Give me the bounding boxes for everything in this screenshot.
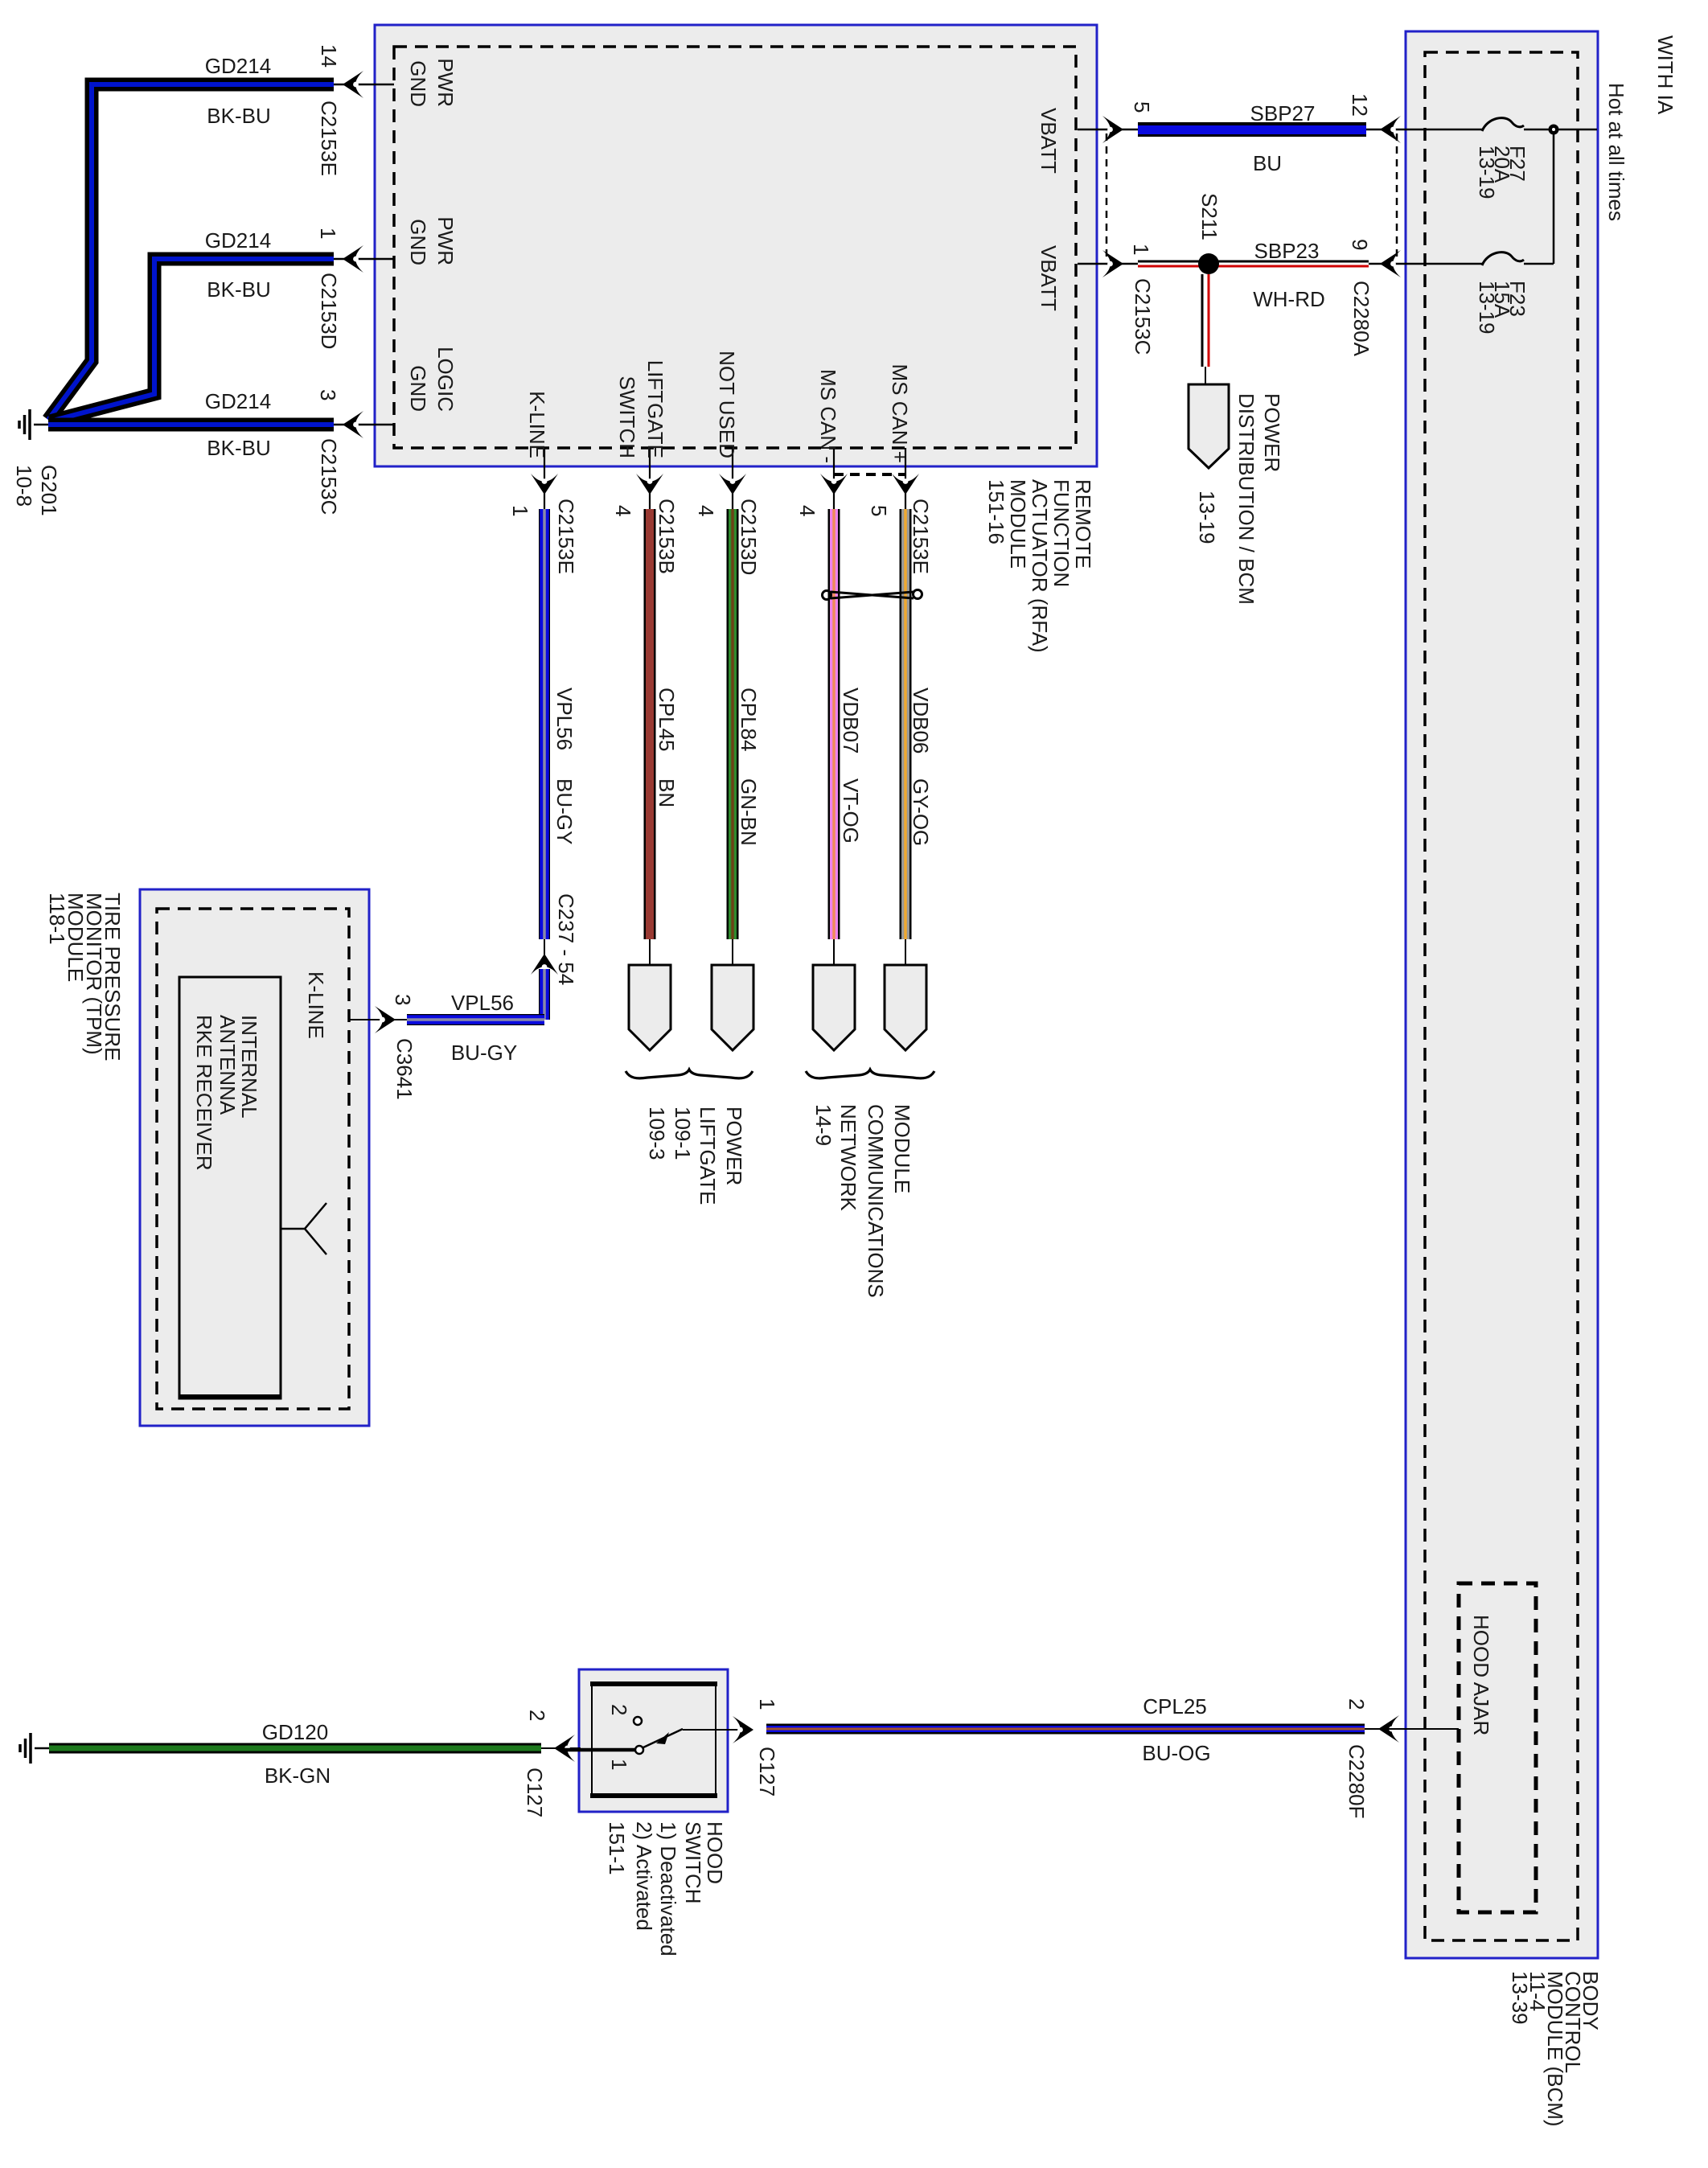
svg-text:GY-OG: GY-OG <box>909 778 933 846</box>
svg-text:CPL84: CPL84 <box>737 688 761 752</box>
svg-text:NETWORK: NETWORK <box>836 1104 860 1212</box>
svg-text:13-19: 13-19 <box>1195 491 1219 544</box>
svg-text:INTERNAL: INTERNAL <box>237 1015 261 1119</box>
svg-text:13-19: 13-19 <box>1475 281 1499 335</box>
svg-text:5: 5 <box>867 505 891 516</box>
svg-text:GND: GND <box>406 60 430 107</box>
svg-text:C2153B: C2153B <box>655 499 679 574</box>
svg-text:SBP23: SBP23 <box>1254 239 1320 263</box>
svg-text:BU-GY: BU-GY <box>451 1041 517 1065</box>
svg-text:BK-BU: BK-BU <box>207 104 270 128</box>
svg-text:C2153D: C2153D <box>317 273 341 349</box>
svg-text:1: 1 <box>1129 244 1153 255</box>
svg-text:RKE RECEIVER: RKE RECEIVER <box>192 1015 216 1171</box>
svg-text:MODULE: MODULE <box>890 1104 914 1193</box>
svg-text:SBP27: SBP27 <box>1250 101 1316 125</box>
svg-text:151-1: 151-1 <box>605 1821 629 1875</box>
svg-text:1: 1 <box>755 1698 779 1710</box>
svg-text:K-LINE: K-LINE <box>304 971 328 1039</box>
svg-text:2: 2 <box>525 1710 549 1721</box>
svg-text:HOOD AJAR: HOOD AJAR <box>1469 1615 1493 1735</box>
svg-text:13-19: 13-19 <box>1475 146 1499 199</box>
svg-text:14: 14 <box>317 44 341 68</box>
svg-text:G201: G201 <box>37 465 61 516</box>
svg-text:K-LINE: K-LINE <box>525 391 549 458</box>
svg-text:POWER: POWER <box>1260 393 1284 472</box>
svg-text:5: 5 <box>1130 101 1154 113</box>
svg-text:1: 1 <box>316 228 340 239</box>
svg-text:151-16: 151-16 <box>984 479 1008 544</box>
svg-text:BU-OG: BU-OG <box>1142 1741 1210 1765</box>
svg-text:CPL45: CPL45 <box>655 688 679 752</box>
svg-text:BN: BN <box>655 778 679 807</box>
svg-text:VBATT: VBATT <box>1037 108 1061 174</box>
svg-text:POWER: POWER <box>722 1107 746 1185</box>
svg-text:1: 1 <box>508 505 532 516</box>
svg-text:S211: S211 <box>1197 193 1221 240</box>
svg-text:1) Deactivated: 1) Deactivated <box>656 1821 680 1957</box>
svg-text:WITH IA: WITH IA <box>1653 35 1677 115</box>
svg-text:COMMUNICATIONS: COMMUNICATIONS <box>864 1104 888 1298</box>
svg-text:VDB07: VDB07 <box>839 688 863 753</box>
svg-text:SWITCH: SWITCH <box>615 376 639 458</box>
svg-text:C2153C: C2153C <box>317 438 341 515</box>
svg-text:2: 2 <box>607 1704 631 1715</box>
svg-text:MS CAN +: MS CAN + <box>888 363 912 463</box>
svg-text:BK-BU: BK-BU <box>207 277 270 302</box>
svg-text:BK-BU: BK-BU <box>207 436 270 460</box>
svg-text:ANTENNA: ANTENNA <box>216 1015 240 1115</box>
svg-text:FUNCTION: FUNCTION <box>1049 479 1074 587</box>
svg-text:12: 12 <box>1348 93 1372 117</box>
svg-text:3: 3 <box>316 389 340 400</box>
svg-text:BK-GN: BK-GN <box>265 1764 331 1788</box>
svg-text:10-8: 10-8 <box>12 465 36 507</box>
svg-text:GD120: GD120 <box>262 1720 328 1744</box>
svg-text:4: 4 <box>795 505 819 516</box>
svg-text:2) Activated: 2) Activated <box>632 1821 656 1931</box>
svg-text:BU: BU <box>1253 151 1282 175</box>
svg-text:C237 - 54: C237 - 54 <box>554 893 578 985</box>
svg-text:14-9: 14-9 <box>811 1104 836 1146</box>
svg-text:MS CAN -: MS CAN - <box>816 369 840 463</box>
svg-text:C2153C: C2153C <box>1131 278 1155 355</box>
svg-text:C2280F: C2280F <box>1345 1744 1369 1819</box>
svg-text:C2153D: C2153D <box>737 499 761 575</box>
svg-text:4: 4 <box>694 505 718 516</box>
svg-text:NOT USED: NOT USED <box>715 351 739 458</box>
svg-text:C2153E: C2153E <box>909 499 933 574</box>
svg-text:SWITCH: SWITCH <box>681 1821 705 1904</box>
svg-text:VBATT: VBATT <box>1037 245 1061 311</box>
svg-text:LOGIC: LOGIC <box>433 347 458 412</box>
svg-text:2: 2 <box>1345 1698 1369 1710</box>
svg-text:4: 4 <box>611 505 635 516</box>
svg-text:13-39: 13-39 <box>1508 1971 1532 2025</box>
svg-text:GD214: GD214 <box>205 228 271 253</box>
svg-text:C127: C127 <box>523 1768 547 1817</box>
svg-text:GND: GND <box>406 219 430 265</box>
svg-text:WH-RD: WH-RD <box>1253 287 1325 311</box>
svg-text:9: 9 <box>1348 239 1372 250</box>
svg-text:GD214: GD214 <box>205 389 271 413</box>
svg-text:MODULE: MODULE <box>1006 479 1030 569</box>
svg-text:C2280A: C2280A <box>1349 281 1373 357</box>
svg-text:GD214: GD214 <box>205 54 271 78</box>
svg-text:C127: C127 <box>755 1747 779 1796</box>
svg-text:GN-BN: GN-BN <box>737 778 761 846</box>
svg-text:1: 1 <box>607 1759 631 1770</box>
svg-text:Hot at all times: Hot at all times <box>1604 83 1628 221</box>
svg-text:DISTRIBUTION / BCM: DISTRIBUTION / BCM <box>1234 393 1258 605</box>
svg-text:BU-GY: BU-GY <box>552 778 577 844</box>
svg-text:C3641: C3641 <box>392 1038 417 1100</box>
svg-text:LIFTGATE: LIFTGATE <box>643 360 667 458</box>
svg-text:ACTUATOR (RFA): ACTUATOR (RFA) <box>1028 479 1052 653</box>
svg-text:GND: GND <box>406 365 430 412</box>
svg-text:C2153E: C2153E <box>317 101 341 176</box>
svg-text:CPL25: CPL25 <box>1143 1694 1207 1718</box>
svg-text:HOOD: HOOD <box>703 1821 727 1884</box>
svg-text:109-3: 109-3 <box>645 1107 669 1160</box>
svg-text:PWR: PWR <box>433 58 458 107</box>
svg-text:118-1: 118-1 <box>45 893 69 945</box>
svg-text:C2153E: C2153E <box>554 499 578 574</box>
svg-text:REMOTE: REMOTE <box>1071 479 1095 569</box>
svg-text:VDB06: VDB06 <box>909 688 933 753</box>
svg-text:LIFTGATE: LIFTGATE <box>696 1107 720 1205</box>
svg-text:VPL56: VPL56 <box>451 991 514 1015</box>
svg-text:109-1: 109-1 <box>671 1107 695 1160</box>
svg-text:PWR: PWR <box>433 216 458 265</box>
svg-text:VT-OG: VT-OG <box>839 778 863 844</box>
svg-text:VPL56: VPL56 <box>552 688 577 750</box>
svg-text:3: 3 <box>391 994 415 1005</box>
